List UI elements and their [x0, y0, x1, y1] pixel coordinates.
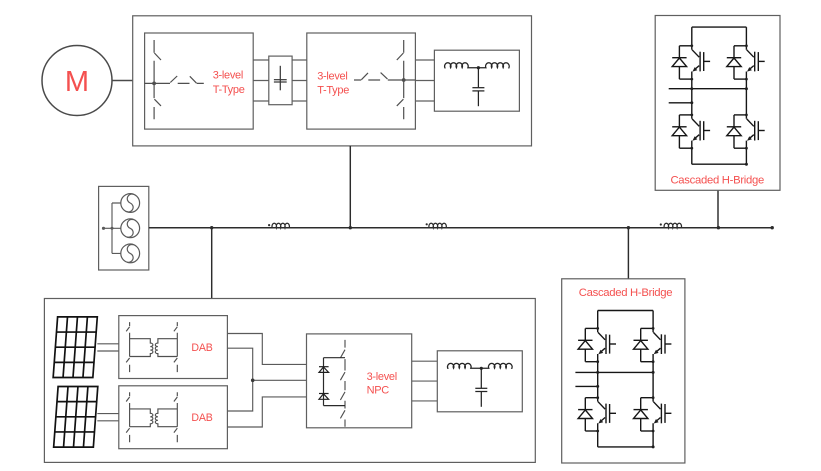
bus inductor L1: [268, 223, 293, 227]
svg-text:M: M: [65, 66, 89, 98]
IGBT Q8: [634, 396, 672, 432]
PV system outer box: [44, 299, 535, 463]
wires PV2 to DAB2: [97, 414, 119, 421]
upper CHB junction dots: [690, 87, 693, 90]
wire upper CHB box to bus: [717, 190, 719, 227]
dot before L2: [426, 223, 428, 225]
NPC clamp branch wires: [324, 358, 346, 406]
lower cascaded H-bridge box: [562, 279, 685, 463]
svg-text:T-Type: T-Type: [213, 84, 245, 96]
svg-text:T-Type: T-Type: [317, 85, 349, 97]
node dot U1 phase: [152, 82, 156, 86]
dc-link wires C1 to U2: [292, 60, 307, 101]
node dot U2 phase: [402, 78, 406, 82]
ac bus main line: [149, 227, 772, 229]
ac wires U2 to filter F1: [415, 60, 434, 101]
PV panel PV2: [54, 387, 98, 448]
svg-text:Cascaded H-Bridge: Cascaded H-Bridge: [670, 174, 764, 186]
grid source G1 wiring: [104, 203, 122, 253]
IGBT Q7: [578, 396, 616, 432]
svg-text:3-level: 3-level: [213, 70, 243, 82]
svg-text:3-level: 3-level: [367, 371, 397, 383]
converter box U1 (machine-side 3-level T-Type): [145, 33, 254, 129]
PV panel PV1: [53, 317, 97, 378]
upper cascaded H-bridge box: [655, 16, 780, 191]
LC filter F1: [434, 50, 519, 111]
bus inductor L3: [660, 223, 685, 227]
wire DAB1- / DAB2+ to NPC mid: [227, 348, 252, 411]
converter box U2 (grid-side 3-level T-Type): [307, 33, 416, 129]
dc-link wires U1 to C1: [253, 60, 269, 101]
LC filter F2: [437, 351, 522, 412]
grid source box G1: [99, 186, 149, 270]
lower CHB junction dots: [596, 371, 599, 374]
back-to-back drive outer box: [133, 16, 532, 146]
T-type leg U2: [354, 40, 415, 119]
svg-text:NPC: NPC: [367, 384, 390, 396]
ac source VA: [121, 194, 140, 213]
dot before L1: [268, 224, 270, 226]
grid node dot: [102, 227, 105, 230]
IGBT Q5: [578, 327, 616, 363]
T-type leg U1: [145, 40, 204, 119]
IGBT Q4: [727, 114, 765, 150]
wire DAB1+ to NPC: [227, 334, 306, 365]
IGBT Q1: [672, 44, 710, 80]
bus junction dots: [210, 226, 213, 229]
svg-text:3-level: 3-level: [317, 71, 347, 83]
lower CHB wiring: [575, 311, 653, 447]
bus inductor L2: [425, 223, 450, 227]
NPC clamp diode D1: [319, 367, 329, 373]
wire DAB2- to NPC: [227, 397, 306, 427]
capacitor C1 symbol: [274, 66, 287, 91]
NPC clamp diode D2: [319, 394, 329, 400]
IGBT Q6: [634, 327, 672, 363]
upper CHB wiring: [669, 27, 747, 164]
NPC converter box U3: [307, 334, 412, 428]
wire motor to drive box: [112, 80, 133, 82]
dot before L3: [660, 223, 662, 225]
wires NPC to filter F2: [412, 361, 438, 401]
DAB converter 2: [119, 386, 228, 449]
wire drive box to ac bus: [349, 146, 351, 228]
dc-link capacitor box C1: [269, 56, 292, 105]
ac source VB: [121, 219, 140, 238]
NPC leg U3: [340, 340, 345, 427]
IGBT Q2: [727, 44, 765, 80]
grid link junction dot: [111, 227, 114, 230]
wire bus to lower CHB box: [627, 228, 629, 279]
ac source VC: [121, 244, 140, 263]
wire bus to PV box: [211, 228, 213, 299]
junction dot DC mid: [251, 379, 255, 383]
bus end dot: [771, 226, 774, 229]
DAB converter 1: [119, 316, 228, 379]
motor M1 circle: [42, 46, 112, 116]
wires PV1 to DAB1: [97, 344, 119, 351]
svg-text:Cascaded H-Bridge: Cascaded H-Bridge: [579, 287, 673, 299]
IGBT Q3: [672, 114, 710, 150]
